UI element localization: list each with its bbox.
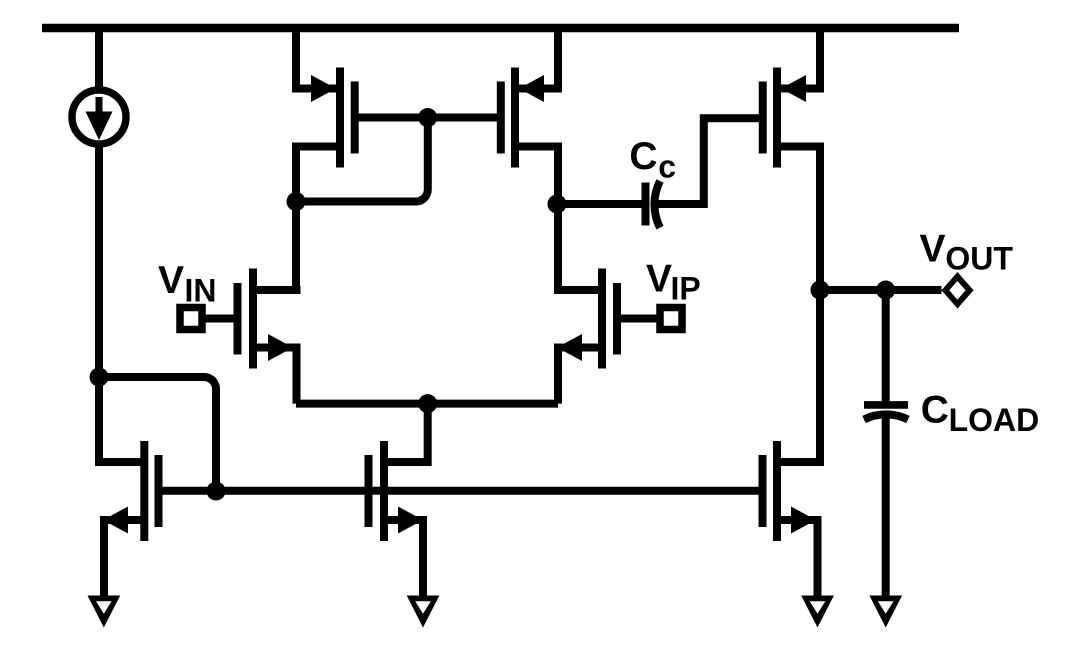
node F (first stage output) (548, 195, 567, 214)
wire (Cc left) (557, 200, 642, 208)
svg-text:c: c (658, 149, 676, 185)
node B (gate bus tap) (207, 482, 226, 501)
label VIP (646, 258, 701, 307)
ground (88, 596, 121, 628)
label VOUT (920, 228, 1014, 277)
svg-text:C: C (629, 135, 657, 178)
port VOUT diamond (942, 272, 974, 309)
svg-text:V: V (646, 258, 672, 301)
svg-text:IP: IP (671, 271, 701, 307)
node H (CLOAD tap) (876, 281, 895, 300)
label VIN (158, 259, 217, 309)
transistor M8 (103, 441, 159, 598)
transistor M6 (output NMOS) (763, 290, 821, 598)
svg-text:LOAD: LOAD (949, 402, 1040, 438)
transistor M7 (output PMOS) (763, 28, 824, 290)
node D (first mirror diode node) (287, 192, 306, 211)
wire (95, 143, 103, 466)
ground (801, 596, 834, 628)
wire (M3 diode connection, rounded corner) (296, 118, 428, 202)
transistor M1 (VIN input) (204, 269, 301, 404)
wire (Cc right to M7 gate) (656, 118, 763, 204)
wire (tail bus) (296, 400, 558, 408)
wire (95, 28, 103, 91)
svg-text:V: V (920, 228, 946, 271)
capacitor CLOAD (864, 405, 908, 420)
transistor M2 (VIP input) (554, 269, 658, 404)
current source I1 (72, 90, 126, 144)
wire (output) (820, 286, 942, 294)
transistor M3 (mirror left PMOS) (292, 28, 355, 168)
wire (gate bus) (159, 487, 763, 495)
port VIN (180, 308, 202, 330)
node A (bias) (90, 368, 109, 387)
node C (tail node) (418, 394, 437, 413)
node G (output node) (811, 281, 830, 300)
wire (M8 diode connection, rounded corner) (99, 377, 216, 491)
wire (M8 drain stub) (95, 458, 144, 466)
label Cc (629, 135, 676, 185)
ground (869, 596, 902, 628)
transistor M5 (tail) (369, 404, 428, 598)
label CLOAD (921, 389, 1040, 439)
ground (407, 596, 440, 628)
wire (M3/M1 drain column) (292, 147, 300, 295)
node E (mirror gate node) (418, 108, 437, 127)
svg-text:OUT: OUT (945, 241, 1013, 277)
svg-text:V: V (158, 259, 184, 302)
port VIP (660, 308, 682, 330)
capacitor Cc (646, 181, 661, 228)
wire (mirror gate wire) (355, 114, 501, 122)
wire (CLOAD top) (882, 290, 890, 405)
svg-text:IN: IN (185, 273, 217, 309)
VDD rail (42, 24, 959, 33)
svg-text:C: C (921, 389, 949, 432)
transistor M4 (mirror right PMOS) (501, 28, 562, 294)
wire (CLOAD bottom) (882, 414, 890, 598)
